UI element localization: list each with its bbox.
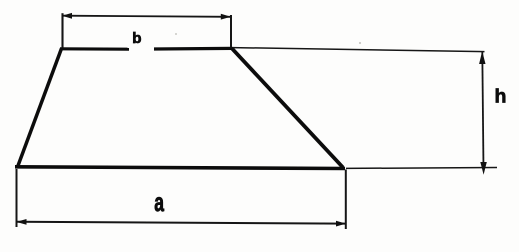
faint scan speck 2 (359, 42, 361, 44)
dimension a: dimension line (17, 222, 345, 224)
dimension a: right arrowhead (336, 221, 346, 227)
dimension a: right extension line (345, 170, 347, 230)
label a (154, 188, 164, 217)
faint scan speck 1 (175, 33, 177, 35)
dimension b: right extension line (230, 15, 232, 48)
svg-text:a: a (154, 188, 164, 217)
dimension h: top reference line (233, 48, 485, 52)
dimension a: left arrowhead (16, 219, 26, 225)
dimension a: left extension line (16, 169, 18, 227)
trapezoid right slanted side (232, 48, 344, 168)
dimension h: down arrowhead (480, 162, 487, 175)
dimension b: left extension line (61, 13, 63, 47)
dimension b: right arrowhead (221, 14, 231, 20)
dimension h: up arrowhead (479, 51, 485, 64)
dimension b: dimension line (63, 16, 230, 17)
trapezoid bottom edge (15, 167, 345, 169)
dimension h: vertical dimension line (482, 52, 483, 170)
svg-text:b: b (132, 30, 141, 47)
trapezoid left slanted side (17, 49, 61, 168)
dimension b: left arrowhead (62, 13, 72, 19)
dimension h: bottom reference line (346, 167, 497, 170)
trapezoid top edge (right segment) (154, 47, 233, 51)
trapezoid top edge (left segment) (60, 47, 129, 51)
svg-text:h: h (495, 85, 507, 107)
